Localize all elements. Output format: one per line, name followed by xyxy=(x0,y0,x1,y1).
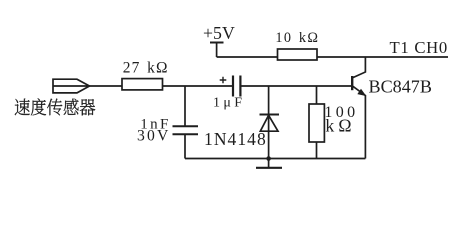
+5V terminal stem xyxy=(216,43,218,58)
svg-text:+5V: +5V xyxy=(203,23,235,43)
svg-text:T1 CH0: T1 CH0 xyxy=(390,38,449,57)
wire: +5V rail to 10k resistor xyxy=(217,56,278,58)
capacitor 1nF 30V xyxy=(173,126,199,134)
junction node dot at diode/ground rail xyxy=(266,156,271,161)
transistor Q1 BC847B base bar xyxy=(351,76,353,90)
wire: 27k resistor to 1uF capacitor left plate xyxy=(163,85,233,87)
label 速度传感器 speed sensor xyxy=(15,98,96,115)
plus polarity mark of 1uF xyxy=(220,77,227,84)
diode 1N4148 cathode bar xyxy=(260,114,280,116)
wire: 10k resistor to T1 CH0 output xyxy=(317,56,448,58)
resistor 100kΩ xyxy=(309,104,324,142)
wire: 1uF capacitor to transistor base xyxy=(240,85,351,87)
svg-text:30V: 30V xyxy=(137,128,171,145)
+5V terminal bar xyxy=(210,42,224,44)
transistor Q1 collector lead xyxy=(353,57,366,78)
transistor Q1 emitter lead xyxy=(353,86,366,158)
capacitor 1uF polarized, series plates xyxy=(233,76,240,97)
svg-text:kΩ: kΩ xyxy=(325,116,355,136)
wire: bottom ground rail xyxy=(185,158,365,160)
transistor Q1 emitter arrowhead xyxy=(358,90,365,96)
wire: 1nF capacitor branch stems xyxy=(184,86,186,159)
wire: 100k resistor top stem xyxy=(316,86,318,104)
resistor 10kΩ xyxy=(278,49,318,60)
svg-text:BC847B: BC847B xyxy=(369,77,432,97)
wire: sensor tip to 27k resistor xyxy=(90,85,123,87)
diode 1N4148 vertical lead xyxy=(268,86,270,159)
ground stem xyxy=(268,159,270,168)
diode 1N4148 triangle xyxy=(260,115,278,131)
wire: 100k resistor bottom stem xyxy=(316,142,318,159)
ground bar xyxy=(256,167,282,169)
svg-text:1N4148: 1N4148 xyxy=(204,129,267,149)
svg-text:1μF: 1μF xyxy=(213,95,245,110)
resistor 27kΩ xyxy=(122,79,163,90)
connector J1 speed sensor xyxy=(53,79,90,93)
